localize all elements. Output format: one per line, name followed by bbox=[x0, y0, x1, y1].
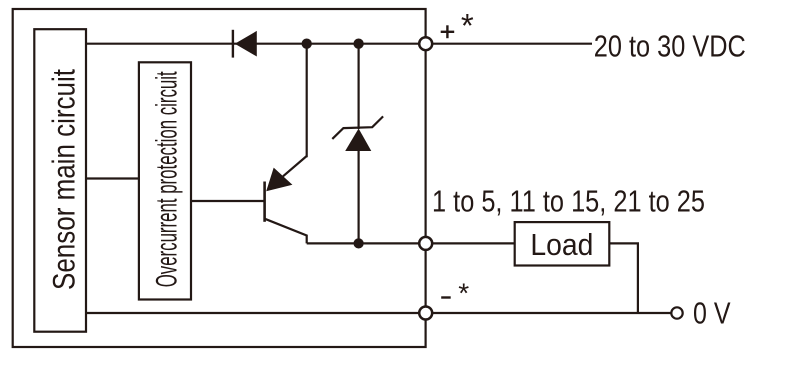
wire: emitter vertical from top rail bbox=[306, 44, 308, 158]
wire: 0V rail from - terminal to 0V circle bbox=[430, 312, 671, 314]
zener diode ZD1 bbox=[332, 116, 383, 151]
svg-text:Sensor main circuit: Sensor main circuit bbox=[46, 69, 82, 290]
svg-text:Overcurrent protection circuit: Overcurrent protection circuit bbox=[151, 71, 184, 287]
wire: zener branch upper bbox=[358, 44, 360, 129]
wire: top rail from sensor block to + terminal bbox=[85, 43, 421, 45]
wire: sensor block to overcurrent block bbox=[85, 177, 139, 179]
terminal output bbox=[419, 237, 432, 250]
transistor Q1 (PNP) bbox=[265, 156, 307, 243]
terminal - bbox=[419, 307, 432, 320]
label - sign bbox=[441, 296, 451, 298]
wire: output terminal to load box bbox=[430, 242, 515, 244]
label + sign bbox=[441, 25, 455, 38]
wire: overcurrent block to transistor base bbox=[190, 200, 264, 202]
svg-text:*: * bbox=[458, 277, 469, 308]
svg-text:Load: Load bbox=[530, 227, 593, 262]
junction node output rail bbox=[354, 238, 364, 248]
sensor main circuit block bbox=[34, 29, 86, 332]
wire: sensor block to - terminal bbox=[86, 312, 420, 314]
sensor outline box bbox=[13, 9, 426, 347]
svg-text:20 to 30 VDC: 20 to 30 VDC bbox=[594, 29, 746, 64]
wire: + terminal to 20-30VDC label bbox=[430, 43, 592, 45]
terminal + bbox=[419, 37, 432, 50]
overcurrent protection circuit block bbox=[139, 62, 191, 299]
svg-text:0 V: 0 V bbox=[693, 297, 731, 331]
junction node top-left bbox=[302, 39, 312, 49]
load box bbox=[515, 222, 610, 265]
svg-text:1 to 5, 11 to 15, 21 to 25: 1 to 5, 11 to 15, 21 to 25 bbox=[432, 183, 705, 218]
junction node top-right bbox=[353, 39, 363, 49]
wire: load box to down corner bbox=[609, 243, 638, 313]
terminal 0V circle bbox=[671, 307, 682, 318]
wire: output rail to load bbox=[307, 242, 420, 244]
diode D1 bbox=[233, 30, 257, 58]
wire: zener branch lower bbox=[358, 151, 360, 243]
svg-text:*: * bbox=[461, 7, 474, 44]
